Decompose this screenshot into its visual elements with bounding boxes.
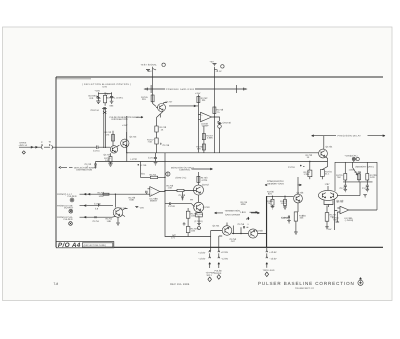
capacitor C1749 series to Q1750 base bbox=[165, 202, 195, 208]
capacitor C1745 row 2 bbox=[94, 203, 101, 211]
wire memory gate rail bbox=[343, 181, 373, 183]
svg-text:C1756: C1756 bbox=[238, 223, 245, 226]
svg-text:+12.6V: +12.6V bbox=[198, 251, 206, 254]
label L1746 bbox=[138, 164, 148, 167]
transistor Q1752 bbox=[194, 183, 210, 202]
svg-text:−12.6V: −12.6V bbox=[198, 258, 206, 261]
svg-text:SPLY: SPLY bbox=[207, 274, 213, 277]
svg-text:PULSER: PULSER bbox=[64, 218, 73, 221]
transistor Q1750 bbox=[194, 202, 211, 212]
wire U1748A minus leg bbox=[336, 212, 340, 222]
page sheet bbox=[3, 27, 393, 301]
svg-text:6.2K: 6.2K bbox=[370, 176, 375, 179]
svg-text:C1737: C1737 bbox=[340, 187, 347, 190]
svg-text:C1749: C1749 bbox=[168, 205, 175, 208]
node +15V DCPL entry bbox=[345, 155, 360, 163]
resistor R1753 bbox=[197, 172, 208, 185]
deflection blanking control label U7D bbox=[82, 83, 131, 89]
svg-text:4.22K: 4.22K bbox=[201, 179, 207, 182]
resistor R1756 series bbox=[167, 184, 185, 191]
svg-text:COMPARE AMPLIFIER: COMPARE AMPLIFIER bbox=[166, 88, 194, 91]
svg-text:C1745: C1745 bbox=[94, 203, 101, 206]
svg-text:+12.6V: +12.6V bbox=[221, 251, 229, 254]
svg-text:1K: 1K bbox=[307, 156, 310, 159]
svg-text:Q1745: Q1745 bbox=[130, 135, 138, 138]
transistor Q1736 bbox=[294, 177, 304, 212]
resistor R1876 bbox=[280, 196, 287, 210]
svg-text:C1751: C1751 bbox=[93, 220, 100, 223]
junction row1 bus bbox=[115, 194, 116, 195]
svg-text:C1746: C1746 bbox=[163, 144, 170, 147]
wire blanking block tie bbox=[98, 92, 111, 95]
svg-text:Q1754: Q1754 bbox=[213, 224, 221, 227]
svg-text:COMP: COMP bbox=[202, 125, 209, 128]
svg-text:SET: SET bbox=[106, 92, 111, 95]
svg-text:(MEMORY GATE): (MEMORY GATE) bbox=[356, 165, 374, 168]
label N/C bbox=[171, 234, 176, 239]
svg-text:MONIT: MONIT bbox=[150, 200, 158, 203]
svg-text:Q1742: Q1742 bbox=[337, 200, 345, 203]
svg-text:1.5K: 1.5K bbox=[168, 187, 173, 190]
wire inner border artifact bbox=[57, 78, 92, 80]
connector column 1 below frame bbox=[198, 250, 215, 282]
wire output bus down bbox=[165, 191, 211, 237]
transistor Q1747 bbox=[153, 101, 173, 112]
capacitor C1747 with ground bbox=[148, 153, 157, 165]
svg-text:(1752A): (1752A) bbox=[195, 220, 203, 223]
resistor R1732 bbox=[304, 162, 312, 180]
svg-text:+15V: +15V bbox=[195, 92, 201, 95]
svg-text:REV JUL 1984: REV JUL 1984 bbox=[170, 283, 190, 286]
capacitor C1754 bbox=[282, 217, 291, 220]
resistor R1754 branch bbox=[141, 162, 166, 179]
resistor R1756 47K bbox=[196, 144, 205, 151]
resistor R1736 label bbox=[267, 190, 274, 195]
svg-text:+5V: +5V bbox=[210, 60, 215, 63]
transistor pair Q1740 Q1741 bbox=[318, 183, 344, 203]
svg-text:−15V: −15V bbox=[139, 207, 145, 210]
svg-text:TRANSCRIPT-07: TRANSCRIPT-07 bbox=[295, 287, 315, 290]
svg-text:OUTPUT: OUTPUT bbox=[64, 207, 74, 210]
wire center vertical bus bbox=[126, 116, 128, 162]
main schematic frame left border bbox=[55, 77, 57, 247]
node TEST SIGNAL entry bbox=[141, 63, 166, 77]
svg-text:1.33K: 1.33K bbox=[304, 173, 310, 176]
wire U1748B output to Q1752 bbox=[160, 191, 197, 192]
resistor R1759 bbox=[196, 213, 204, 218]
svg-text:−12.6V: −12.6V bbox=[221, 257, 229, 260]
transistor Q1745 bbox=[117, 132, 137, 153]
resistor R1758 on row 1 bbox=[98, 191, 110, 198]
capacitor C1756 bbox=[238, 223, 250, 228]
resistor R1751 row 3 bbox=[106, 216, 116, 222]
svg-text:R1758: R1758 bbox=[98, 191, 105, 194]
resistor R1757 bbox=[202, 126, 213, 153]
capacitor C1737 with ground bbox=[340, 182, 348, 192]
wire long node B line bbox=[96, 161, 328, 163]
wire Q1754 left leg bbox=[211, 231, 223, 252]
svg-text:−15V: −15V bbox=[326, 228, 332, 231]
svg-text:.047: .047 bbox=[231, 240, 236, 243]
svg-text:(−GAIN): (−GAIN) bbox=[345, 219, 354, 222]
label C1750 bbox=[230, 238, 237, 243]
wire Q1747 emitter bbox=[160, 111, 163, 118]
connector column 2 below frame bbox=[215, 250, 229, 279]
capacitor C1741 bbox=[93, 146, 110, 153]
svg-text:NORMAL LEVEL: NORMAL LEVEL bbox=[106, 97, 124, 100]
ground memory gate bbox=[363, 195, 367, 197]
label monitor output control arrow bbox=[171, 166, 213, 171]
op-amp U1748 comparator bbox=[198, 112, 211, 152]
svg-text:1.96K: 1.96K bbox=[281, 202, 287, 205]
capacitor C1746 bbox=[161, 143, 170, 147]
memory gate box bbox=[335, 162, 377, 210]
wire feedback loop to memory gate bbox=[349, 209, 377, 211]
label comparator memory gate dimension arrow bbox=[265, 180, 302, 186]
svg-text:PR: PR bbox=[190, 198, 194, 201]
svg-text:7.5K: 7.5K bbox=[148, 141, 153, 144]
node input row 3 from U1714A bbox=[57, 216, 112, 226]
resistor R1755 bbox=[186, 208, 199, 237]
wire double bus from blanking block bbox=[103, 107, 106, 148]
capacitor C1734 bbox=[288, 165, 305, 169]
resistor R1884 with ground bbox=[294, 212, 306, 235]
transistor Q1746 bbox=[113, 207, 127, 225]
svg-text:DRIVE: DRIVE bbox=[215, 272, 222, 275]
diode VR1744 zener with ground bbox=[89, 90, 101, 104]
wire long node A line bbox=[127, 152, 318, 154]
wire pair emitters bbox=[324, 200, 333, 207]
capacitor C1753 bbox=[183, 222, 186, 225]
main schematic frame top border bbox=[56, 76, 383, 78]
wire memory gate to pair bbox=[337, 182, 360, 196]
ground Q1750 emitter with shield bbox=[195, 217, 203, 230]
svg-text:1.8K: 1.8K bbox=[107, 220, 112, 223]
label precision delay dimension arrow bbox=[312, 135, 386, 138]
resistor R1739 bbox=[366, 162, 377, 182]
svg-text:Q1734: Q1734 bbox=[326, 146, 334, 149]
svg-text:+SIG 1A: +SIG 1A bbox=[19, 144, 28, 147]
symbol title stamp bbox=[358, 278, 363, 286]
node input row 2 from U1714B bbox=[57, 204, 113, 213]
svg-text:−12.6V: −12.6V bbox=[269, 257, 277, 260]
svg-text:7K: 7K bbox=[268, 202, 271, 205]
resistor R1752 bbox=[197, 95, 208, 114]
resistor R1737 bbox=[325, 206, 337, 227]
svg-text:R1754: R1754 bbox=[150, 174, 157, 177]
svg-text:+15V(DCPL): +15V(DCPL) bbox=[345, 155, 358, 158]
wire column 3 above frame bbox=[266, 196, 268, 247]
svg-text:(STAT 2-1): (STAT 2-1) bbox=[176, 176, 187, 179]
svg-text:100K: 100K bbox=[241, 203, 247, 206]
capacitor C1751 row 3 bbox=[93, 216, 100, 223]
svg-text:C1736: C1736 bbox=[362, 187, 369, 190]
svg-text:+5.1V: +5.1V bbox=[216, 70, 222, 73]
svg-text:L1746: L1746 bbox=[140, 164, 147, 167]
resistor R1741 with ground bbox=[104, 153, 113, 166]
svg-text:CR1744: CR1744 bbox=[91, 109, 100, 112]
resistor R1736 row1 label bbox=[129, 196, 136, 201]
transistor Q1758 bbox=[232, 229, 267, 238]
resistor R1742 bbox=[104, 92, 112, 105]
svg-text:MEMORY GATE: MEMORY GATE bbox=[268, 183, 285, 186]
label -15V row2 bbox=[135, 207, 144, 210]
transistor Q1754 bbox=[211, 223, 232, 236]
svg-text:C1734: C1734 bbox=[288, 166, 295, 169]
op-amp U1748A bbox=[332, 206, 353, 222]
svg-text:CONTROL: CONTROL bbox=[179, 169, 191, 172]
node input row 1 from Q1712 bbox=[57, 193, 148, 202]
resistor R1733 bbox=[306, 154, 313, 159]
label compare amplifier dimension arrow bbox=[145, 85, 247, 93]
connector column 3 below frame bbox=[263, 248, 277, 277]
wire comparator base line bbox=[266, 196, 293, 247]
svg-text:DIS: DIS bbox=[90, 97, 94, 100]
resistor R1731 bbox=[336, 162, 347, 182]
main schematic frame bottom border bbox=[56, 246, 383, 248]
resistor R1745 bbox=[141, 77, 154, 104]
capacitor C1740 at node B start bbox=[85, 162, 97, 169]
svg-text:C1741: C1741 bbox=[93, 150, 100, 153]
resistor R1743 bbox=[105, 131, 115, 146]
transistor Q1743 bbox=[104, 146, 118, 157]
transistor Q1734 bbox=[318, 136, 333, 162]
svg-text:47K: 47K bbox=[197, 148, 202, 151]
svg-text:PULSER: PULSER bbox=[68, 195, 77, 198]
svg-text:(DEFLECTION CARD): (DEFLECTION CARD) bbox=[84, 244, 106, 247]
resistor R1734 bbox=[320, 162, 332, 180]
svg-text:L1732: L1732 bbox=[131, 158, 138, 161]
diode CR1746 with test point bbox=[212, 116, 232, 153]
test point TP1748 bbox=[164, 172, 186, 179]
svg-text:51.1: 51.1 bbox=[325, 173, 330, 176]
P/O A4 title box bbox=[56, 242, 114, 250]
capacitor C1853 bbox=[281, 216, 291, 224]
capacitor C1748 bbox=[179, 192, 194, 202]
svg-text:1.84V: 1.84V bbox=[240, 211, 246, 214]
label -15V bbox=[325, 227, 332, 231]
label pulse generator ramp distribution bbox=[110, 116, 144, 121]
node +5V entry bbox=[210, 60, 225, 77]
resistor R1747 bbox=[147, 138, 158, 153]
label deflection pickoff annotation bbox=[59, 166, 96, 171]
svg-text:P/O A4: P/O A4 bbox=[58, 242, 81, 249]
wire pair left leg down bbox=[335, 199, 338, 230]
svg-text:PULSER BASELINE CORRECTION: PULSER BASELINE CORRECTION bbox=[258, 281, 355, 286]
label 1.84V input arrow bbox=[240, 201, 258, 221]
svg-text:75K: 75K bbox=[337, 176, 342, 179]
svg-text:1787: 1787 bbox=[325, 183, 331, 186]
svg-text:7-8: 7-8 bbox=[54, 282, 59, 286]
svg-text:DISTRIBUTION: DISTRIBUTION bbox=[112, 118, 128, 121]
svg-text:6.8K: 6.8K bbox=[130, 199, 135, 202]
svg-text:TRIG LEAD: TRIG LEAD bbox=[263, 269, 275, 272]
capacitor C1736 with ground bbox=[362, 182, 369, 192]
label termination gate driver arrow bbox=[215, 210, 260, 217]
svg-text:U7D: U7D bbox=[103, 86, 108, 89]
capacitor C1744 with ground bbox=[110, 92, 115, 107]
svg-text:( DEFLECTION BLANKING CONTRO: ( DEFLECTION BLANKING CONTROL ) bbox=[82, 83, 131, 86]
svg-text:CR1746: CR1746 bbox=[223, 121, 232, 124]
op-amp U1748B bbox=[146, 187, 159, 203]
junction dots gate driver bbox=[233, 226, 242, 235]
wire Q1747 collector to comparator bbox=[163, 103, 198, 107]
capacitor C1742 row1 bbox=[146, 191, 147, 195]
svg-text:+12.6V: +12.6V bbox=[269, 251, 277, 254]
junction node B dots bbox=[309, 161, 310, 162]
svg-text:TERMINATION: TERMINATION bbox=[225, 210, 241, 213]
svg-text:GATE DRIVER: GATE DRIVER bbox=[225, 214, 240, 217]
svg-text:TEST SIGNAL: TEST SIGNAL bbox=[141, 64, 158, 67]
svg-text:Q1743: Q1743 bbox=[104, 153, 112, 156]
label 4.7us bbox=[246, 217, 250, 221]
node pulser drive input at left edge bbox=[19, 141, 97, 155]
diode CR1744 bbox=[91, 107, 108, 112]
svg-text:1K: 1K bbox=[161, 129, 164, 132]
svg-text:Q1747: Q1747 bbox=[166, 101, 174, 104]
svg-text:PRECISION DELAY: PRECISION DELAY bbox=[338, 135, 362, 138]
svg-text:DISTRIBUTION: DISTRIBUTION bbox=[76, 169, 92, 172]
svg-text:+15V: +15V bbox=[95, 90, 101, 93]
resistor R1749 bbox=[155, 114, 167, 138]
svg-text:C1754: C1754 bbox=[282, 217, 289, 220]
svg-text:Q1752: Q1752 bbox=[202, 183, 210, 186]
svg-text:C1747: C1747 bbox=[148, 157, 155, 160]
wire row1 to Q1746 bbox=[114, 194, 116, 207]
potentiometer R1738 bbox=[353, 162, 362, 182]
resistor R1748 75 ohm bbox=[213, 77, 224, 153]
resistor R1881 bbox=[267, 196, 275, 209]
svg-text:4.99K: 4.99K bbox=[207, 137, 213, 140]
